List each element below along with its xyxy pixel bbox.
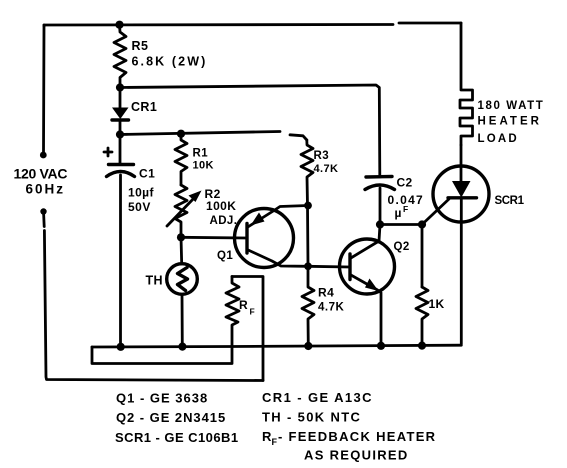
node R5 bottom rail2 junction [116, 83, 124, 91]
label heater load [478, 100, 545, 145]
svg-text:TH: TH [146, 274, 163, 288]
wire top left horizontal [44, 25, 393, 27]
label RF note [262, 429, 436, 447]
svg-text:10µf: 10µf [128, 186, 154, 200]
svg-text:100K: 100K [206, 199, 236, 213]
svg-text:CR1: CR1 [131, 100, 157, 114]
label RF [239, 298, 255, 317]
node Q1 collector R4 junction [304, 262, 312, 270]
thyristor SCR1 [433, 145, 489, 344]
svg-text:R5: R5 [132, 39, 149, 53]
label C1 value [128, 167, 155, 215]
svg-text:Q1: Q1 [217, 250, 233, 262]
wire main vertical top (R5 feed) [115, 21, 123, 29]
svg-text:ADJ.: ADJ. [210, 215, 238, 227]
resistor R4 [302, 266, 314, 346]
svg-text:Q1 - GE 3638: Q1 - GE 3638 [116, 391, 208, 406]
svg-text:- FEEDBACK HEATER: - FEEDBACK HEATER [278, 429, 436, 444]
wire ground bus [92, 345, 461, 347]
wire Q1 base [181, 236, 247, 239]
node 120VAC terminal bottom [40, 208, 46, 214]
svg-text:1K: 1K [429, 297, 445, 311]
resistor R5 [114, 25, 126, 87]
thermistor TH [167, 264, 198, 295]
wire TH top [180, 237, 183, 264]
svg-text:R1: R1 [193, 148, 209, 160]
svg-text:50V: 50V [128, 200, 151, 214]
heater load element [460, 23, 473, 145]
wire top right horizontal segment [399, 22, 461, 25]
node 120VAC terminal top [40, 152, 47, 159]
svg-text:C1: C1 [139, 167, 155, 181]
svg-text:Q2: Q2 [394, 241, 410, 253]
bus bar rectangle [92, 347, 232, 364]
svg-text:60Hz: 60Hz [26, 182, 66, 197]
node rail3 left junction [116, 130, 124, 138]
resistor R1 [175, 134, 187, 185]
svg-text:180 WATT: 180 WATT [478, 100, 545, 112]
svg-text:R4: R4 [318, 286, 334, 300]
svg-text:TH - 50K NTC: TH - 50K NTC [262, 410, 361, 425]
svg-text:10K: 10K [193, 160, 214, 172]
node bus 1K [418, 342, 426, 350]
capacitor C1 [107, 135, 135, 347]
wire TH bottom [181, 295, 184, 347]
wire rail3 right corner into R3 [290, 135, 307, 140]
wire Q2 base [308, 265, 350, 269]
svg-text:F: F [250, 307, 256, 317]
wire feedback riser vertical [232, 277, 263, 381]
rheostat R2 [175, 185, 187, 237]
wire R3-R4 link [306, 206, 309, 267]
svg-text:R: R [262, 429, 272, 444]
svg-text:F: F [403, 204, 409, 214]
svg-text:F: F [272, 437, 278, 447]
wire left vertical upper [42, 25, 45, 153]
svg-text:C2: C2 [397, 176, 413, 190]
resistor 1K [416, 287, 428, 346]
svg-text:6.8K (2W): 6.8K (2W) [132, 55, 208, 69]
label R3 value [314, 150, 339, 175]
resistor RF [226, 277, 239, 347]
label R4 value [318, 286, 344, 314]
node bus Q2 emitter [377, 342, 385, 350]
label R5 value [132, 39, 208, 69]
svg-text:4.7K: 4.7K [318, 302, 344, 314]
label C2 value [388, 176, 425, 221]
svg-text:HEATER: HEATER [478, 116, 542, 128]
node C2 Q2 collector junction [376, 220, 384, 228]
label R2 value [205, 187, 238, 227]
node bus TH [178, 343, 186, 351]
svg-text:SCR1: SCR1 [495, 195, 525, 207]
svg-text:µ: µ [395, 206, 402, 220]
capacitor C2 [365, 177, 395, 225]
capacitor C1 plus sign [104, 148, 112, 156]
svg-text:AS REQUIRED: AS REQUIRED [304, 448, 409, 463]
wire 1K top [421, 225, 424, 288]
svg-text:4.7K: 4.7K [314, 163, 339, 175]
node rail3 R1 junction [177, 130, 185, 138]
wire SCR gate lead [422, 199, 449, 225]
rheostat R2 arrow [167, 191, 202, 227]
svg-text:120 VAC: 120 VAC [14, 166, 68, 182]
wire rail3 horizontal left segment [120, 132, 280, 135]
svg-text:CR1 - GE A13C: CR1 - GE A13C [262, 390, 373, 405]
node bus C1 [117, 343, 125, 351]
svg-text:R: R [239, 298, 248, 312]
node bus R4 [304, 342, 312, 350]
wire rail2 horizontal to C2 [120, 85, 380, 176]
node gate 1K junction [418, 220, 426, 228]
label 120 VAC 60Hz [14, 166, 68, 197]
label R1 value [193, 148, 214, 172]
wire gate node horizontal [380, 223, 422, 226]
diode CR1 [112, 88, 129, 135]
transistor Q2 [340, 225, 395, 347]
svg-text:R3: R3 [314, 150, 330, 162]
node Q1 base junction [177, 233, 185, 241]
wire left vertical lower [42, 213, 45, 227]
svg-text:LOAD: LOAD [478, 133, 519, 145]
node Q1 emitter R3 junction [304, 202, 312, 210]
transistor Q1 [235, 206, 309, 268]
svg-text:SCR1 - GE C106B1: SCR1 - GE C106B1 [115, 430, 239, 445]
svg-text:Q2 - GE 2N3415: Q2 - GE 2N3415 [116, 410, 226, 425]
resistor R3 [301, 140, 313, 206]
